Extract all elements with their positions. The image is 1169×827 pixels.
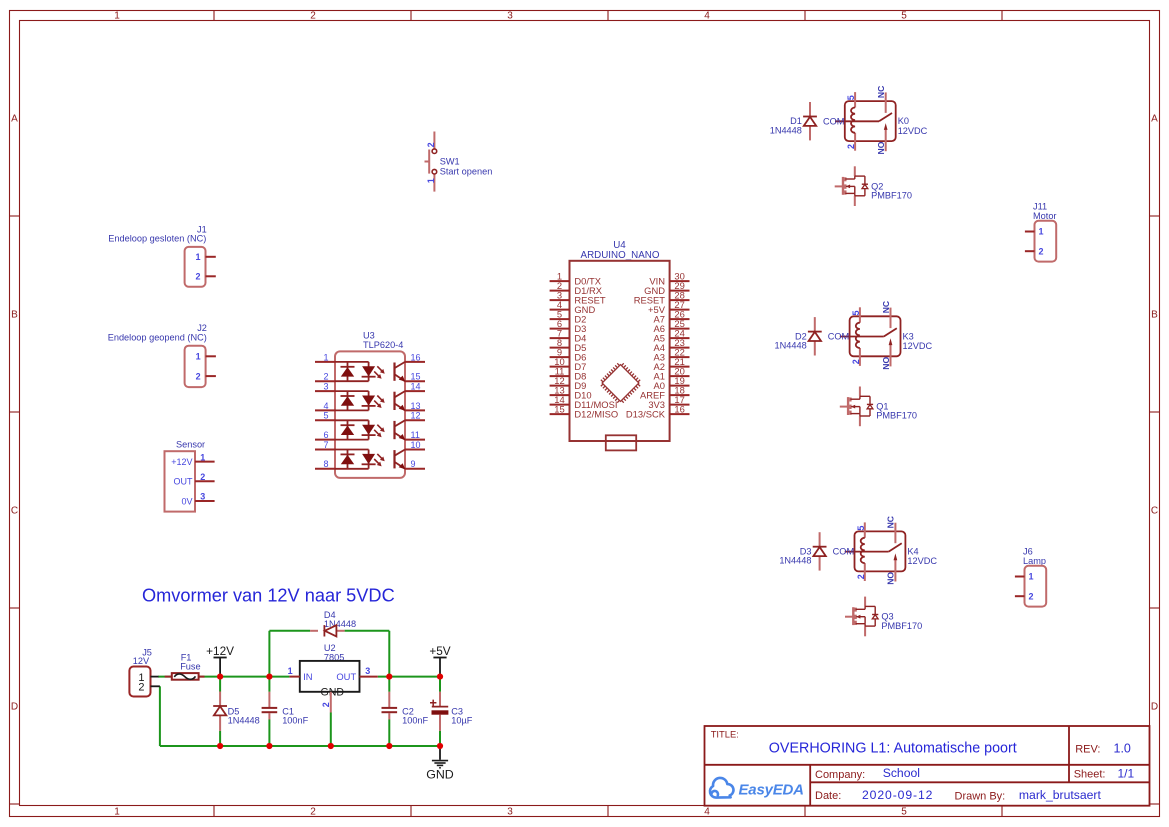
svg-text:1.0: 1.0 [1114,742,1131,756]
svg-text:5: 5 [856,526,866,531]
svg-text:A: A [1151,114,1158,125]
svg-text:5: 5 [846,95,856,100]
svg-text:REV:: REV: [1075,744,1100,756]
svg-text:NO: NO [886,572,896,585]
svg-text:NC: NC [876,86,886,98]
svg-text:NO: NO [876,141,886,154]
svg-text:Sensor: Sensor [176,439,205,449]
svg-text:+12V: +12V [206,644,234,658]
svg-text:ARDUINO_NANO: ARDUINO_NANO [581,250,660,261]
svg-text:15: 15 [411,372,421,382]
svg-text:5: 5 [323,411,328,421]
svg-text:Start openen: Start openen [440,167,493,177]
svg-text:1N4448: 1N4448 [228,716,260,726]
svg-text:11: 11 [411,430,420,440]
svg-text:U3: U3 [363,331,375,341]
svg-text:3: 3 [507,11,513,22]
svg-text:1N4448: 1N4448 [770,125,802,135]
svg-text:2: 2 [856,574,866,579]
svg-text:5: 5 [851,310,861,315]
svg-text:Company:: Company: [815,769,865,781]
svg-text:Omvormer van 12V naar 5VDC: Omvormer van 12V naar 5VDC [142,586,395,606]
svg-text:Fuse: Fuse [180,662,200,672]
svg-text:2: 2 [846,144,856,149]
svg-text:1: 1 [288,666,293,676]
svg-text:Endeloop geopend (NC): Endeloop geopend (NC) [108,332,207,342]
svg-text:1N4448: 1N4448 [779,556,811,566]
svg-text:B: B [1151,310,1158,321]
svg-text:School: School [883,766,920,780]
svg-text:12V: 12V [133,656,150,666]
svg-text:2: 2 [426,142,436,147]
svg-text:1: 1 [196,352,201,362]
svg-text:16: 16 [411,352,421,362]
svg-text:2020-09-12: 2020-09-12 [862,788,933,802]
svg-text:OUT: OUT [174,477,194,487]
svg-text:Motor: Motor [1033,211,1057,221]
svg-text:1: 1 [114,807,120,818]
svg-text:TITLE:: TITLE: [711,729,739,740]
svg-text:1/1: 1/1 [1118,766,1135,780]
svg-text:PMBF170: PMBF170 [871,191,912,201]
svg-text:D13/SCK: D13/SCK [626,409,666,420]
svg-text:3: 3 [365,666,370,676]
svg-text:14: 14 [411,382,421,392]
svg-text:2: 2 [1029,591,1034,601]
svg-text:C: C [1151,506,1158,517]
svg-text:2: 2 [138,682,144,694]
svg-text:2: 2 [310,11,316,22]
svg-text:GND: GND [426,768,454,782]
svg-text:12VDC: 12VDC [903,341,933,351]
svg-text:NO: NO [881,356,891,369]
svg-text:GND: GND [321,687,345,699]
svg-text:PMBF170: PMBF170 [881,621,922,631]
svg-text:1: 1 [195,252,200,262]
svg-text:100nF: 100nF [282,716,308,726]
svg-text:D: D [1151,702,1158,713]
svg-text:PMBF170: PMBF170 [876,411,917,421]
svg-text:12: 12 [411,411,421,421]
svg-text:IN: IN [303,671,312,682]
svg-text:D12/MISO: D12/MISO [574,409,618,420]
svg-text:K4: K4 [907,547,918,557]
svg-text:Sheet:: Sheet: [1074,768,1106,780]
svg-text:12VDC: 12VDC [898,126,928,136]
svg-text:16: 16 [674,404,684,415]
svg-text:15: 15 [554,404,564,415]
svg-text:Lamp: Lamp [1023,556,1046,566]
svg-text:3: 3 [323,382,328,392]
svg-text:2: 2 [851,359,861,364]
svg-text:NC: NC [881,301,891,313]
svg-text:NC: NC [886,516,896,528]
svg-text:Date:: Date: [815,790,841,802]
svg-text:K3: K3 [903,331,914,341]
svg-text:1N4448: 1N4448 [775,341,807,351]
svg-text:9: 9 [411,459,416,469]
svg-text:K0: K0 [898,116,909,126]
svg-text:1: 1 [323,352,328,362]
svg-text:1: 1 [426,178,436,183]
svg-text:3: 3 [200,492,205,502]
svg-text:COM: COM [823,116,844,126]
svg-text:C: C [11,506,18,517]
svg-text:8: 8 [323,459,328,469]
svg-text:4: 4 [323,401,328,411]
svg-text:1: 1 [114,11,120,22]
svg-text:B: B [11,310,18,321]
svg-text:2: 2 [323,372,328,382]
svg-text:5: 5 [901,11,907,22]
svg-text:7: 7 [323,440,328,450]
svg-text:2: 2 [200,472,205,482]
svg-text:2: 2 [310,807,316,818]
svg-text:SW1: SW1 [440,157,460,167]
svg-text:1N4448: 1N4448 [324,619,356,629]
svg-text:10µF: 10µF [451,716,473,726]
svg-text:4: 4 [704,11,710,22]
svg-text:1: 1 [1039,227,1044,237]
svg-text:2: 2 [195,272,200,282]
svg-text:3: 3 [507,807,513,818]
svg-text:OVERHORING L1: Automatische po: OVERHORING L1: Automatische poort [769,741,1017,757]
svg-text:+5V: +5V [429,644,450,658]
svg-text:+12V: +12V [171,457,192,467]
svg-text:10: 10 [411,440,421,450]
svg-text:Endeloop gesloten (NC): Endeloop gesloten (NC) [108,233,206,243]
svg-text:1: 1 [200,452,205,462]
svg-text:5: 5 [901,807,907,818]
svg-text:EasyEDA: EasyEDA [739,781,804,798]
svg-text:Drawn By:: Drawn By: [955,790,1006,802]
svg-text:100nF: 100nF [402,716,428,726]
svg-text:12VDC: 12VDC [907,556,937,566]
svg-text:COM: COM [833,547,854,557]
svg-text:0V: 0V [181,496,192,506]
svg-text:D: D [11,702,18,713]
svg-text:6: 6 [323,430,328,440]
svg-text:1: 1 [1029,572,1034,582]
svg-text:TLP620-4: TLP620-4 [363,340,403,350]
svg-text:13: 13 [411,401,421,411]
svg-text:OUT: OUT [336,671,356,682]
svg-text:2: 2 [1039,246,1044,256]
svg-text:2: 2 [196,371,201,381]
svg-text:mark_brutsaert: mark_brutsaert [1019,788,1102,802]
svg-text:2: 2 [321,702,331,707]
svg-text:A: A [11,114,18,125]
svg-text:4: 4 [704,807,710,818]
svg-text:COM: COM [828,332,849,342]
